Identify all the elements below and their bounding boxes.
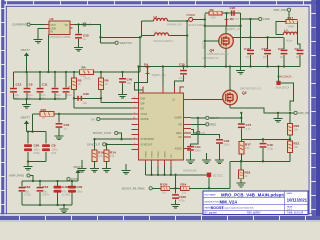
wire main power bus y66.5	[139, 66, 301, 68]
svg-text:10u: 10u	[56, 93, 61, 97]
svg-text:1K: 1K	[78, 82, 81, 86]
svg-text:VBATT: VBATT	[203, 41, 206, 49]
svg-text:10u: 10u	[296, 55, 301, 59]
capacitor C17	[262, 37, 272, 66]
capacitor C63	[19, 181, 31, 205]
svg-text:10k: 10k	[294, 128, 299, 132]
svg-text:(C60): (C60)	[33, 151, 40, 155]
inductor L5	[276, 29, 297, 43]
svg-text:MRO_PCB_V4B_MAIN.pdsprj: MRO_PCB_V4B_MAIN.pdsprj	[221, 192, 285, 197]
capacitor C100	[172, 188, 186, 203]
svg-text:D4: D4	[144, 62, 148, 66]
resistor R4 on bus72	[80, 66, 94, 81]
svg-text:1K: 1K	[42, 116, 45, 120]
wire bottom bus y99	[14, 98, 67, 100]
node PWRG input terminal	[187, 13, 207, 27]
junction	[27, 160, 29, 162]
svg-text:BOOST_FB_PWM: BOOST_FB_PWM	[122, 187, 145, 191]
svg-text:R6: R6	[105, 79, 109, 83]
svg-text:R18: R18	[245, 171, 251, 175]
diode D4	[135, 62, 166, 93]
regulator U2	[45, 17, 74, 39]
svg-text:C2: C2	[295, 47, 299, 51]
junction	[105, 143, 107, 145]
capacitor C64	[37, 181, 49, 205]
capacitor C41	[187, 118, 201, 158]
wire VBATT down to bus	[26, 60, 28, 72]
svg-text:VBATT: VBATT	[21, 48, 31, 52]
svg-text:REV: @REV: REV: @REV	[247, 212, 261, 215]
svg-text:FB: FB	[178, 123, 181, 126]
wire Q2 source out	[230, 105, 290, 113]
svg-text:AGND: AGND	[164, 151, 167, 158]
svg-text:(C8): (C8)	[51, 151, 56, 155]
node AMP_PWD top terminal	[274, 8, 291, 12]
svg-text:REG: REG	[176, 132, 181, 135]
IC right net REG	[191, 123, 217, 127]
svg-text:PAGE:: PAGE:	[287, 205, 294, 208]
svg-text:1K: 1K	[105, 82, 108, 86]
ground y112.9	[274, 113, 283, 122]
capacitor C13	[52, 72, 61, 100]
wire x230 down to fb row	[229, 161, 231, 188]
svg-text:IN: IN	[51, 31, 54, 34]
svg-text:Q4: Q4	[210, 49, 215, 53]
capacitor C40	[119, 72, 132, 93]
transistor Q4	[205, 26, 234, 67]
junction	[174, 187, 176, 189]
svg-text:SQBPL_1N: SQBPL_1N	[152, 73, 166, 77]
svg-text:100p: 100p	[267, 146, 273, 150]
ground R16	[90, 162, 99, 173]
svg-text:470p: 470p	[179, 199, 185, 203]
svg-text:C11: C11	[42, 83, 48, 87]
junction dots amp bus	[32, 180, 73, 182]
node IN terminal	[92, 117, 139, 121]
svg-text:10K: 10K	[98, 154, 103, 158]
svg-text:C16: C16	[244, 47, 250, 51]
wire R05 left down	[32, 114, 34, 132]
capacitor C43	[191, 135, 230, 158]
svg-text:C64: C64	[43, 185, 49, 189]
wire y139.2 to IC	[95, 138, 139, 140]
wire D2 bottom net	[205, 13, 259, 69]
junction	[99, 36, 101, 38]
svg-text:DESIGN TITLE:: DESIGN TITLE:	[205, 201, 220, 203]
svg-text:AMP_PWD: AMP_PWD	[274, 8, 288, 12]
svg-text:SMAJ26CA: SMAJ26CA	[277, 75, 292, 79]
svg-text:1 of 1: 1 of 1	[287, 209, 293, 211]
junction dots bus99	[25, 98, 56, 100]
svg-text:240R: 240R	[288, 25, 294, 29]
svg-text:CA1: CA1	[195, 145, 201, 149]
svg-text:10p: 10p	[83, 101, 88, 105]
ground below bus x240.6	[236, 68, 245, 75]
svg-text:C21: C21	[278, 47, 284, 51]
svg-text:FILE NAME:: FILE NAME:	[205, 193, 217, 196]
wire AMP_PWD to bus	[30, 176, 33, 182]
wire pin rows y102.3 y107.9	[74, 98, 139, 108]
svg-text:R20: R20	[294, 124, 300, 128]
svg-text:10/11/2021: 10/11/2021	[287, 198, 308, 203]
wire CURRENT to U2	[30, 24, 45, 26]
svg-text:C9: C9	[29, 83, 33, 87]
svg-text:C17: C17	[262, 47, 268, 51]
title block	[203, 191, 308, 215]
svg-text:10u: 10u	[263, 55, 268, 59]
resistor R5	[72, 72, 82, 90]
wire vertical x204.8	[204, 14, 206, 67]
svg-text:220n: 220n	[224, 142, 230, 146]
wire elec bus y131.6	[27, 131, 47, 133]
junction	[137, 36, 141, 68]
ground R14	[102, 162, 111, 173]
svg-text:SS: SS	[178, 136, 182, 139]
svg-text:PGND: PGND	[152, 151, 154, 158]
wire U2 OUT +5 rail	[74, 25, 140, 43]
wire feedback mid y139.3	[242, 138, 291, 140]
resistor R05	[33, 108, 60, 120]
svg-text:U5: U5	[180, 85, 184, 89]
svg-text:(C63): (C63)	[24, 193, 31, 197]
svg-text:VBATTM: VBATTM	[120, 41, 132, 45]
ground elec bank	[24, 162, 33, 171]
wire amp bus y181	[22, 180, 78, 182]
svg-text:10u: 10u	[15, 93, 20, 97]
resistor R14	[104, 144, 116, 161]
wire FWD down x250.5	[250, 19, 252, 37]
resistor R21	[288, 135, 300, 153]
svg-text:R19: R19	[181, 183, 187, 187]
svg-text:(TXT): (TXT)	[84, 77, 91, 81]
ground U2	[34, 37, 43, 44]
wire L5 R17 right vertical	[297, 22, 300, 50]
svg-text:R17: R17	[288, 16, 294, 20]
svg-text:R16: R16	[98, 151, 104, 155]
svg-text:L7: L7	[154, 29, 157, 33]
svg-text:R5: R5	[78, 79, 82, 83]
ground C41	[186, 157, 195, 164]
node VBATTM terminal	[101, 41, 132, 45]
svg-text:(C199): (C199)	[62, 193, 70, 197]
svg-text:100n: 100n	[195, 149, 201, 153]
svg-text:DIM: DIM	[141, 97, 145, 100]
wire VBATT rail vertical x140	[139, 21, 142, 93]
capacitor C21	[278, 37, 287, 66]
wire PWRG to x204.8	[193, 19, 205, 21]
junction dots bus72	[25, 71, 123, 73]
svg-text:27k: 27k	[110, 154, 115, 158]
svg-text:10u: 10u	[28, 93, 33, 97]
resistor R20	[288, 113, 300, 135]
capacitor C35	[175, 62, 187, 93]
power VBATT second	[21, 116, 31, 129]
transistor Q2	[191, 67, 261, 105]
svg-text:SA09021W: SA09021W	[183, 169, 197, 173]
wire elec bottom bus	[28, 161, 46, 163]
ground IC bottom left	[122, 164, 131, 174]
inductor L6	[142, 15, 188, 27]
node CURRENT terminal	[12, 23, 30, 27]
capacitor C16	[244, 37, 254, 66]
node FWD terminal	[259, 17, 271, 21]
capacitor C9	[24, 72, 33, 100]
svg-text:BY: gauravi: BY: gauravi	[205, 212, 218, 215]
svg-text:C8: C8	[52, 144, 56, 148]
svg-text:R21: R21	[294, 142, 300, 146]
svg-text:D2: D2	[230, 17, 234, 21]
svg-text:2N7002W-13: 2N7002W-13	[203, 56, 219, 60]
svg-text:C47: C47	[246, 123, 252, 127]
svg-text:R120: R120	[160, 183, 168, 187]
svg-text:COMP: COMP	[210, 116, 219, 120]
wire bus to IC top x162.8	[162, 67, 164, 94]
svg-text:VO: VO	[65, 24, 69, 27]
svg-text:10u: 10u	[280, 55, 285, 59]
svg-text:10u: 10u	[127, 81, 132, 85]
wire R05 right to IC pin	[59, 113, 139, 115]
svg-text:DATE:: DATE:	[287, 192, 293, 195]
svg-text:C48: C48	[267, 143, 273, 147]
svg-text:C63: C63	[25, 185, 31, 189]
power VBATT	[21, 48, 31, 60]
IC right net +5	[191, 130, 205, 136]
svg-text:AGND: AGND	[175, 148, 182, 151]
resistor R18	[239, 139, 251, 161]
svg-text:Manage Croydon/David Trofied: Manage Croydon/David Trofied Tork	[222, 208, 254, 210]
svg-text:R9: R9	[210, 8, 214, 12]
IC bottom pin names inside	[146, 151, 174, 158]
svg-text:C36: C36	[83, 92, 89, 96]
resistor R16	[92, 139, 104, 161]
svg-text:VBATT: VBATT	[21, 116, 31, 120]
svg-text:SQBPL_IN: SQBPL_IN	[227, 27, 240, 31]
svg-text:10u: 10u	[41, 93, 46, 97]
junction	[77, 23, 79, 25]
svg-text:R14: R14	[110, 151, 116, 155]
wire FB branch y117.5	[209, 113, 241, 123]
svg-text:SYNC/SHRT: SYNC/SHRT	[141, 138, 155, 141]
ground bus99	[22, 99, 31, 108]
svg-text:COMP: COMP	[174, 116, 182, 119]
capacitor C11	[37, 72, 48, 100]
diode D2 zener	[225, 12, 240, 26]
svg-text:R17: R17	[245, 143, 251, 147]
svg-text:40uH: 40uH	[286, 38, 292, 42]
ground C42	[55, 133, 64, 140]
wire VBATT2 to bus131	[26, 128, 28, 132]
svg-text:DIP: DIP	[141, 103, 145, 106]
power VBATT third	[73, 165, 83, 181]
ground mid left	[78, 160, 87, 172]
svg-text:PGND: PGND	[158, 151, 160, 158]
junction dots	[73, 97, 102, 99]
svg-text:DMT6007LFG-13: DMT6007LFG-13	[208, 52, 229, 56]
ground C25	[74, 45, 83, 52]
svg-text:FWD: FWD	[263, 17, 271, 21]
svg-text:10k: 10k	[245, 146, 250, 150]
capacitor C199 electrolytic	[54, 181, 70, 205]
svg-text:SLOPE: SLOPE	[141, 118, 149, 121]
svg-text:4V7: 4V7	[235, 17, 240, 21]
svg-text:1u: 1u	[64, 127, 67, 131]
node BOOST_FB_PWM terminal	[122, 187, 152, 191]
ground C100	[171, 202, 180, 209]
capacitor C8 electrolytic	[42, 132, 58, 162]
svg-text:SYNCOUT: SYNCOUT	[141, 143, 153, 146]
svg-text:Q2: Q2	[242, 91, 247, 95]
IC U5	[132, 85, 192, 166]
capacitor C12	[10, 72, 21, 100]
svg-text:C25: C25	[83, 34, 89, 38]
ground C40	[118, 92, 127, 99]
capacitor C36 series on bus97.8	[77, 92, 89, 105]
svg-text:C35: C35	[179, 62, 185, 66]
diode D3 TVS SMAJ	[276, 67, 294, 111]
svg-text:C43: C43	[224, 139, 230, 143]
capacitor C20	[295, 47, 304, 67]
svg-text:1u: 1u	[83, 37, 86, 41]
resistor R17	[276, 11, 297, 34]
svg-text:EN: EN	[141, 108, 145, 111]
wire R5 R6 bottoms to bus97.8	[74, 90, 101, 99]
junction	[93, 138, 122, 140]
svg-text:C12: C12	[16, 83, 22, 87]
svg-text:L6: L6	[154, 15, 158, 19]
svg-text:AMP_PWD: AMP_PWD	[9, 174, 25, 178]
junction C42	[58, 113, 60, 115]
svg-text:OVLO: OVLO	[141, 113, 148, 116]
svg-text:BOOST_SYNC: BOOST_SYNC	[93, 131, 111, 135]
resistor R120	[152, 183, 180, 195]
svg-text:1%: 1%	[162, 190, 166, 194]
svg-text:BZT52C: BZT52C	[213, 174, 223, 178]
wire main bus y72	[14, 71, 141, 73]
svg-text:C49: C49	[77, 185, 83, 189]
svg-text:4.7n: 4.7n	[246, 127, 252, 131]
capacitor C47	[238, 123, 252, 139]
junction dots bus66.5	[146, 65, 285, 67]
resistor R9	[205, 8, 241, 19]
wire switch node y37.3	[233, 36, 283, 38]
svg-text:100n: 100n	[179, 76, 185, 80]
resistor R6	[99, 72, 109, 90]
svg-text:PA4344.104: PA4344.104	[167, 22, 182, 26]
svg-text:PGND: PGND	[146, 151, 148, 158]
svg-text:10k: 10k	[294, 145, 299, 149]
capacitor C15	[63, 72, 74, 99]
node BOOST_SYNC terminal	[93, 131, 122, 139]
IC right net COMP	[191, 116, 219, 120]
svg-text:R05: R05	[41, 108, 47, 112]
wire amp bottom bus y205	[22, 204, 72, 206]
svg-text:C40: C40	[127, 78, 133, 82]
svg-text:IN: IN	[92, 117, 95, 121]
capacitor C25	[75, 25, 89, 45]
svg-text:PA4344.333NLT: PA4344.333NLT	[187, 23, 207, 27]
svg-text:10u: 10u	[67, 93, 72, 97]
ground amp bus	[60, 205, 69, 213]
svg-text:C42: C42	[64, 123, 70, 127]
inductor L7	[142, 29, 188, 43]
node AMP_PWD terminal	[9, 174, 30, 178]
capacitor C48	[260, 139, 274, 161]
svg-text:C100: C100	[179, 195, 187, 199]
svg-text:MIC5205-5.0BM5: MIC5205-5.0BM5	[50, 35, 72, 39]
node +5 terminal	[83, 23, 91, 27]
svg-text:C60: C60	[34, 144, 40, 148]
capacitor C65 electrolytic	[68, 181, 83, 205]
diode D5	[176, 169, 224, 190]
resistor R19	[181, 183, 231, 195]
wire L out junction vertical x187.2	[186, 21, 188, 67]
resistor R18b	[237, 161, 251, 187]
wire bus y98.3 R5-R6	[74, 97, 101, 99]
svg-text:RED: RED	[210, 123, 217, 127]
svg-text:CURRENT: CURRENT	[12, 23, 27, 27]
svg-text:SYNCOUT: SYNCOUT	[87, 143, 100, 147]
svg-text:1%: 1%	[182, 190, 186, 194]
svg-text:DMT6007LFG-13: DMT6007LFG-13	[240, 87, 261, 91]
svg-text:U2: U2	[50, 17, 54, 21]
wire U2 GND to ground	[38, 29, 45, 39]
svg-text:PA4344.223NLT: PA4344.223NLT	[154, 39, 174, 43]
capacitor C26 series	[230, 6, 236, 16]
svg-text:+5: +5	[88, 23, 92, 27]
svg-text:10u: 10u	[246, 55, 251, 59]
capacitor C42	[56, 114, 70, 133]
svg-text:R4: R4	[82, 66, 86, 70]
node SYNCOUT terminal	[87, 143, 139, 147]
junction dots	[39, 204, 65, 206]
svg-text:(C64): (C64)	[42, 193, 49, 197]
node AMP_PWD right terminal	[290, 111, 311, 115]
wire feedback bottom bus y161.3	[230, 153, 290, 162]
ground mid right	[202, 153, 211, 164]
svg-text:10K: 10K	[211, 15, 216, 19]
junction	[27, 130, 34, 132]
wire U2 IN down to bus	[47, 35, 49, 73]
wire IC bottom pins to gnd bus y174.8	[146, 166, 176, 175]
ground C43	[215, 157, 224, 164]
svg-text:TIME: 02:51:34: TIME: 02:51:34	[287, 212, 304, 215]
svg-text:MM_V2A: MM_V2A	[220, 199, 238, 204]
node PWD terminal	[67, 177, 79, 181]
svg-text:PWRG: PWRG	[187, 13, 196, 17]
capacitor C60 electrolytic	[24, 132, 40, 162]
junction dots feedback top	[277, 112, 291, 114]
svg-text:SMAJ26CA: SMAJ26CA	[276, 86, 290, 90]
svg-text:100u: 100u	[77, 190, 83, 194]
